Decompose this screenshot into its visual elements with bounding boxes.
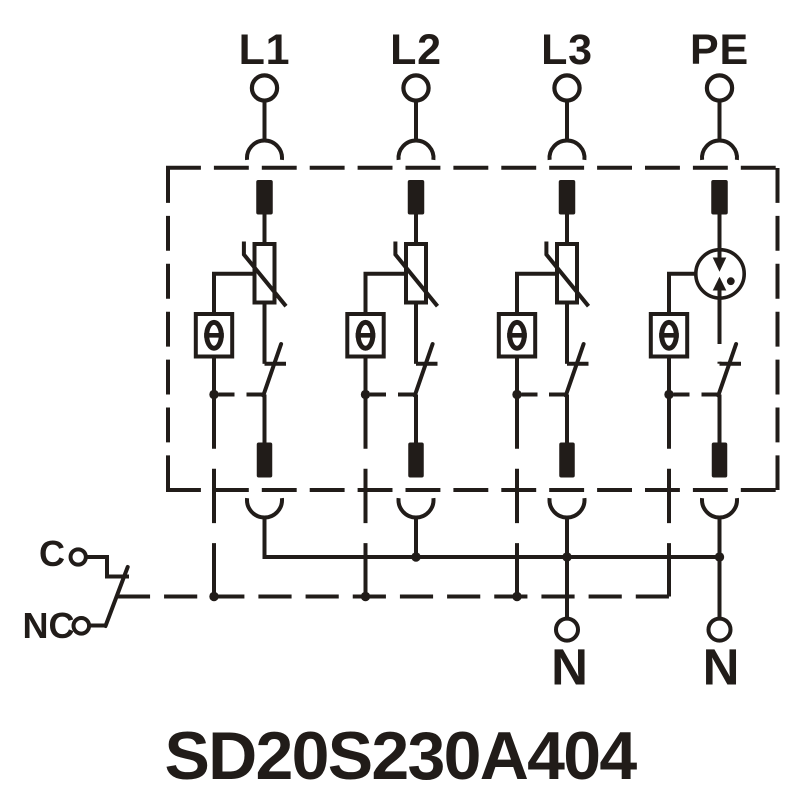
varistor RV3 strike line bbox=[546, 242, 588, 307]
wire thermal sensor to junction (channel PE) bbox=[667, 359, 671, 395]
wire PE bottom contact through bus to N terminal bbox=[718, 517, 722, 618]
wire PE terminal to plug contact bbox=[718, 101, 722, 142]
wire L2 bottom contact to N bus bbox=[414, 517, 418, 557]
wire L3 terminal to plug contact bbox=[565, 101, 569, 142]
wire L1 terminal to plug contact bbox=[263, 101, 267, 142]
varistor RV2 body bbox=[406, 244, 426, 303]
wire branch to thermal sensor (channel L1) bbox=[214, 274, 255, 314]
disconnector link (top fuse block, channel L3) bbox=[559, 180, 576, 215]
junction dot L3 on N bus bbox=[562, 552, 571, 561]
wire C terminal to changeover contact bbox=[86, 557, 129, 577]
gas discharge tube F4 lower arrow bbox=[718, 290, 722, 344]
svg-text:SD20S230A404: SD20S230A404 bbox=[164, 718, 637, 794]
svg-text:L3: L3 bbox=[541, 26, 593, 74]
terminal N (under PE) circle bbox=[709, 619, 731, 641]
wire L3 bottom contact through bus to N terminal bbox=[565, 517, 569, 618]
disconnect switch fixed contact (channel L3) bbox=[565, 362, 569, 364]
disconnect switch blade (channel L1) bbox=[263, 344, 281, 396]
terminal L1 circle bbox=[252, 75, 277, 100]
terminal PE circle bbox=[707, 75, 732, 100]
junction dot mech link channel L3 bbox=[512, 592, 521, 601]
disconnector link (top fuse block, channel PE) bbox=[711, 180, 728, 215]
plug-in contact arc (bottom, channel L2) bbox=[399, 498, 434, 517]
junction dot mech link channel L2 bbox=[361, 592, 370, 601]
varistor RV1 body bbox=[255, 244, 275, 303]
plug-in contact arc (bottom, channel L1) bbox=[247, 498, 282, 517]
plug-in contact arc (top, channel PE) bbox=[702, 141, 737, 160]
thermal sensor theta symbol (channel PE) bbox=[662, 322, 677, 348]
junction dot L2 on N bus bbox=[411, 552, 420, 561]
wire NC terminal to changeover contact bbox=[89, 624, 107, 628]
plug-in contact arc (top, channel L2) bbox=[399, 141, 434, 160]
wire branch to thermal sensor (channel L3) bbox=[517, 274, 557, 314]
wire L2 terminal to plug contact bbox=[414, 101, 418, 142]
thermal sensor theta symbol (channel L1) bbox=[207, 322, 222, 348]
enclosure dashed box top edge bbox=[166, 166, 780, 170]
disconnector link (bottom fuse block, channel L3) bbox=[559, 443, 575, 478]
wire L1 bottom contact to N bus bbox=[265, 517, 417, 557]
enclosure dashed box left edge bbox=[166, 168, 170, 490]
mechanical link dash to switch (channel L3) bbox=[522, 393, 538, 397]
thermal sensor theta symbol (channel L3) bbox=[510, 322, 525, 348]
plug-in contact arc (top, channel L1) bbox=[247, 141, 282, 160]
svg-text:C: C bbox=[39, 533, 65, 574]
enclosure dashed box right edge bbox=[776, 168, 780, 490]
wire fuse block to arrester (channel PE) bbox=[718, 214, 722, 244]
svg-text:PE: PE bbox=[690, 26, 749, 74]
wire thermal sensor to junction (channel L1) bbox=[212, 359, 216, 395]
svg-text:L2: L2 bbox=[390, 26, 442, 74]
thermal disconnect sensor box (channel L1) bbox=[196, 314, 232, 357]
junction dot at thermal chain (channel L2) bbox=[361, 390, 370, 399]
junction dot at thermal chain (channel L1) bbox=[209, 390, 218, 399]
wire branch to thermal sensor (channel PE) bbox=[669, 274, 695, 314]
disconnect switch blade (channel PE) bbox=[718, 344, 736, 396]
junction dot at thermal chain (channel PE) bbox=[664, 390, 673, 399]
mechanical link dashed vertical (channel PE) bbox=[667, 395, 671, 597]
gas discharge tube F4 trigger dot bbox=[727, 277, 735, 285]
gas discharge tube F4 circle bbox=[696, 250, 744, 298]
mechanical link dashed vertical (channel L2) bbox=[364, 395, 368, 597]
wire switch to bottom fuse block (channel L3) bbox=[565, 395, 569, 445]
plug-in contact arc (bottom, channel PE) bbox=[702, 498, 737, 517]
terminal L3 circle bbox=[554, 75, 579, 100]
varistor RV2 strike line bbox=[395, 242, 437, 307]
wire arrester to switch (channel L2) bbox=[414, 304, 418, 364]
disconnector link (top fuse block, channel L1) bbox=[256, 180, 273, 215]
disconnector link (bottom fuse block, channel PE) bbox=[712, 443, 728, 478]
svg-text:N: N bbox=[551, 639, 588, 696]
terminal L2 circle bbox=[403, 75, 428, 100]
enclosure dashed box bottom edge bbox=[166, 488, 780, 492]
wire branch to thermal sensor (channel L2) bbox=[366, 274, 407, 314]
thermal sensor theta symbol (channel L2) bbox=[358, 322, 373, 348]
disconnector link (bottom fuse block, channel L2) bbox=[408, 443, 424, 478]
N bus wire L2 to L3 bbox=[416, 555, 567, 559]
terminal N (under L3) circle bbox=[556, 619, 578, 641]
disconnect switch fixed contact (channel L2) bbox=[414, 362, 418, 364]
mechanical link dash to switch (channel L2) bbox=[370, 393, 386, 397]
mechanical link dashed line to remote contact bbox=[117, 595, 669, 599]
plug-in contact arc (top, channel L3) bbox=[550, 141, 585, 160]
thermal disconnect sensor box (channel PE) bbox=[651, 314, 687, 357]
wire switch to bottom fuse block (channel L1) bbox=[263, 395, 267, 445]
svg-text:L1: L1 bbox=[239, 26, 291, 74]
varistor RV3 body bbox=[557, 244, 577, 303]
gas discharge tube F4 upper arrow bbox=[718, 216, 722, 259]
disconnect switch blade (channel L2) bbox=[415, 344, 433, 396]
wire arrester to switch (channel L3) bbox=[565, 304, 569, 364]
varistor RV1 strike line bbox=[244, 242, 286, 307]
mechanical link dash to switch (channel PE) bbox=[674, 393, 690, 397]
disconnect switch blade (channel L3) bbox=[566, 344, 584, 396]
junction dot at thermal chain (channel L3) bbox=[512, 390, 521, 399]
disconnect switch fixed contact (channel L1) bbox=[263, 362, 267, 364]
mechanical link dash to switch (channel L1) bbox=[219, 393, 235, 397]
thermal disconnect sensor box (channel L2) bbox=[347, 314, 383, 357]
thermal disconnect sensor box (channel L3) bbox=[499, 314, 535, 357]
plug-in contact arc (bottom, channel L3) bbox=[550, 498, 585, 517]
junction dot mech link channel L1 bbox=[209, 592, 218, 601]
wire fuse block to arrester (channel L1) bbox=[263, 214, 267, 244]
wire switch to bottom fuse block (channel PE) bbox=[718, 395, 722, 445]
N bus wire L3 to PE bbox=[567, 555, 720, 559]
disconnect switch fixed contact (channel PE) bbox=[718, 362, 722, 364]
mechanical link dashed vertical (channel L3) bbox=[515, 395, 519, 597]
terminal C circle bbox=[71, 549, 86, 564]
wire fuse block to arrester (channel L2) bbox=[414, 214, 418, 244]
wire thermal sensor to junction (channel L2) bbox=[364, 359, 368, 395]
mechanical link dashed vertical (channel L1) bbox=[212, 395, 216, 597]
junction dot PE on N bus bbox=[715, 552, 724, 561]
terminal NC circle bbox=[74, 618, 90, 634]
svg-text:N: N bbox=[703, 639, 740, 696]
wire fuse block to arrester (channel L3) bbox=[565, 214, 569, 244]
disconnector link (top fuse block, channel L2) bbox=[408, 180, 425, 215]
wire arrester to switch (channel L1) bbox=[263, 304, 267, 364]
wire switch to bottom fuse block (channel L2) bbox=[414, 395, 418, 445]
svg-text:NC: NC bbox=[23, 605, 75, 646]
changeover switch blade (remote contact) bbox=[106, 567, 128, 626]
wire thermal sensor to junction (channel L3) bbox=[515, 359, 519, 395]
disconnector link (bottom fuse block, channel L1) bbox=[257, 443, 273, 478]
